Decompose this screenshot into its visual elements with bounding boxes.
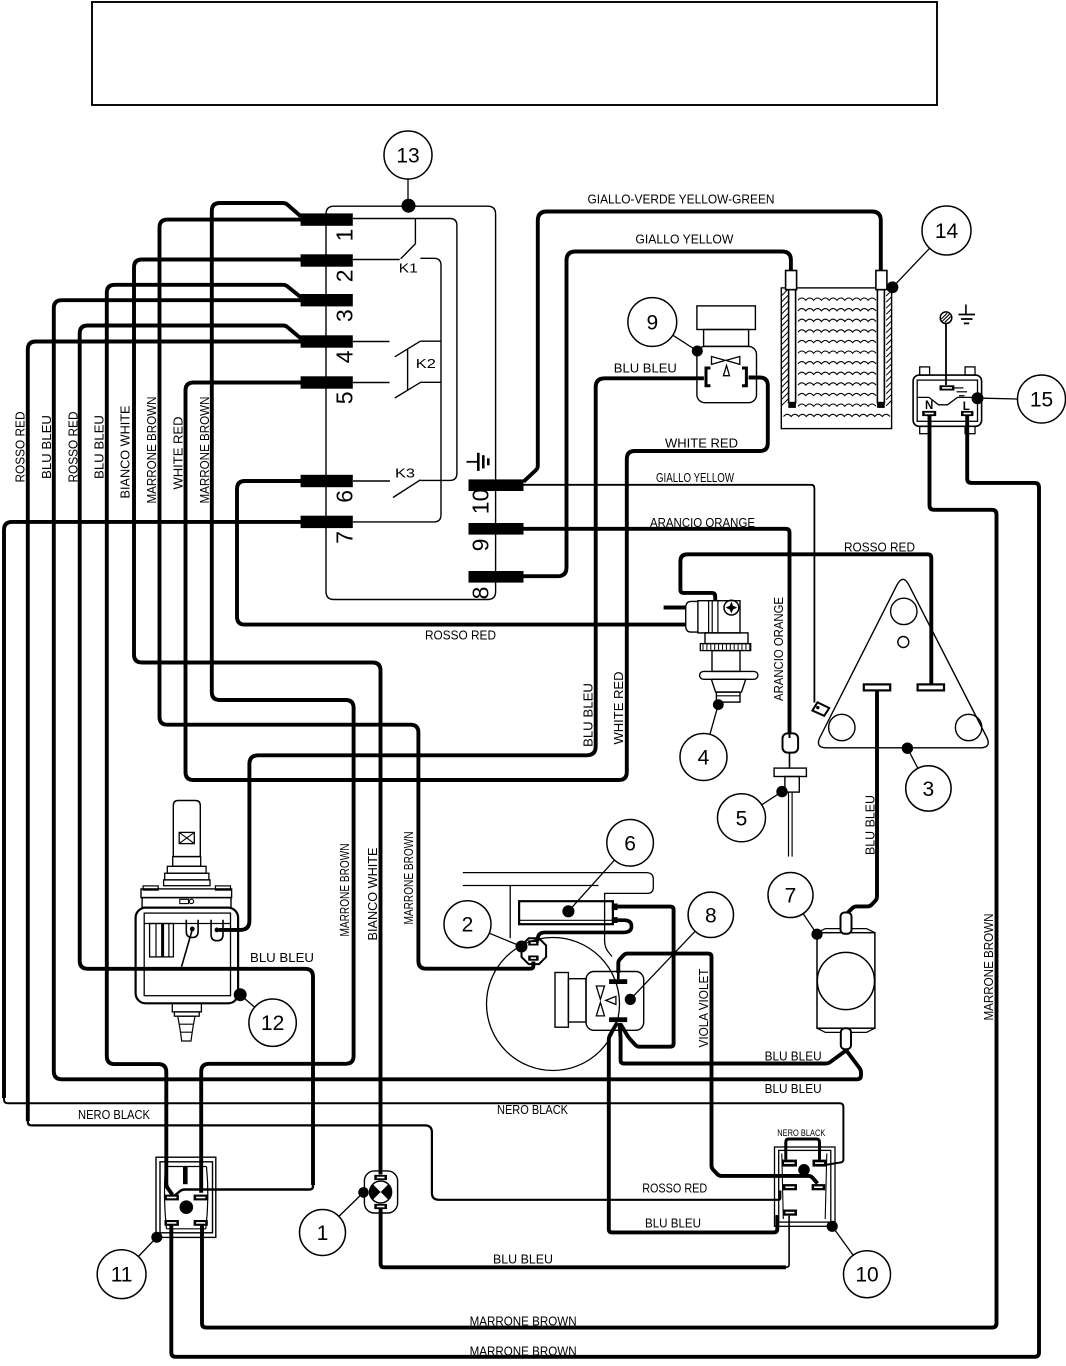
svg-text:9: 9 (646, 312, 658, 335)
svg-text:NERO BLACK: NERO BLACK (497, 1103, 569, 1117)
svg-text:ROSSO RED: ROSSO RED (642, 1182, 707, 1196)
balloon 11 (97, 1250, 146, 1299)
svg-text:NERO BLACK: NERO BLACK (78, 1108, 151, 1122)
thermoblock triangle (818, 579, 988, 748)
solenoid valve 9 body (697, 306, 756, 330)
connector 10 (775, 1147, 836, 1226)
svg-text:13: 13 (396, 145, 419, 168)
connector pins (782, 1160, 798, 1167)
thermoblock hole right (955, 714, 981, 740)
balloon 5 (718, 794, 766, 842)
pump coil (150, 924, 174, 957)
balloon 9 (628, 298, 677, 347)
pump pin right (211, 920, 223, 941)
wire blu terminal3 to motor (54, 300, 861, 1079)
wire blu solenoid8 to connector (609, 1023, 778, 1232)
wire terminal 5 (353, 382, 390, 384)
lamp 1 (364, 1171, 397, 1213)
valve symbol (712, 357, 740, 376)
wire arancio terminal9 to fuse (524, 529, 790, 734)
svg-text:GIALLO YELLOW: GIALLO YELLOW (656, 471, 734, 485)
svg-text:BLU BLEU: BLU BLEU (765, 1050, 822, 1064)
thermostat 2 (522, 938, 547, 964)
wire blu lamp to connector (381, 1209, 786, 1268)
balloon 10 (844, 1251, 891, 1298)
wire giallo-verde earth terminal10 to boiler (524, 212, 881, 482)
svg-text:5: 5 (736, 807, 748, 830)
inlet N pin (922, 411, 936, 416)
balloon 4 (680, 734, 727, 781)
flowmeter neck (705, 633, 748, 644)
pump flange (141, 889, 232, 898)
solenoid 9 right pin (742, 368, 746, 386)
pump top plate (142, 898, 231, 908)
K2 upper contact (420, 340, 441, 342)
svg-text:BLU BLEU: BLU BLEU (93, 415, 107, 479)
K3 blade (393, 480, 421, 498)
svg-text:ROSSO RED: ROSSO RED (844, 540, 915, 554)
inlet profile line (917, 397, 977, 404)
wire rosso terminal4 to pump (80, 326, 313, 1186)
svg-text:9: 9 (468, 539, 494, 552)
svg-text:K2: K2 (416, 357, 436, 371)
svg-text:BLU BLEU: BLU BLEU (765, 1082, 822, 1096)
terminal 5 bar (301, 376, 353, 388)
svg-text:K1: K1 (399, 262, 418, 276)
svg-text:NERO BLACK: NERO BLACK (777, 1128, 826, 1139)
svg-text:BLU BLEU: BLU BLEU (614, 361, 677, 375)
svg-text:GIALLO YELLOW: GIALLO YELLOW (635, 233, 733, 247)
terminal 6 bar (301, 475, 353, 487)
wire giallo terminal10 to thermoblock (524, 485, 815, 703)
svg-text:2: 2 (462, 914, 474, 937)
node junction on board (402, 199, 416, 213)
solenoid 9 left pin (706, 368, 710, 386)
balloon 3 (906, 766, 951, 811)
svg-text:11: 11 (111, 1264, 133, 1287)
wire terminal 4 (353, 341, 390, 343)
heater tab lower (612, 917, 618, 923)
svg-text:6: 6 (332, 490, 358, 503)
thermal fuse 5 body (783, 733, 799, 752)
wire blu terminal3 to switch (107, 285, 301, 1195)
thermoblock terminal right (918, 684, 944, 690)
switch 11 (156, 1157, 216, 1237)
motor 7 body (817, 933, 875, 1028)
svg-text:8: 8 (468, 587, 494, 600)
leader 14 (893, 248, 930, 287)
pump plunger (173, 801, 200, 857)
balloon 14 (922, 206, 971, 255)
solenoid 8 bottom pin (609, 1017, 627, 1022)
leader 9 (673, 335, 698, 351)
flowmeter screw (724, 600, 739, 615)
pump collar 2 (165, 873, 209, 880)
balloon 15 (1018, 375, 1066, 423)
leader 10 (832, 1226, 853, 1255)
terminal 9 bar (469, 523, 524, 535)
svg-text:4: 4 (332, 350, 358, 363)
wire viola solenoid8 to connector (618, 954, 817, 1184)
svg-text:3: 3 (332, 309, 358, 322)
pump pin center (186, 920, 198, 938)
svg-text:K3: K3 (395, 467, 415, 481)
balloon 12 (249, 999, 296, 1046)
svg-text:MARRONE BROWN: MARRONE BROWN (470, 1314, 577, 1328)
group flange (555, 973, 568, 1028)
svg-text:MARRONE BROWN: MARRONE BROWN (338, 844, 352, 937)
leader 13 (407, 179, 409, 199)
wire rosso to switch (174, 1182, 314, 1197)
wire giallo terminal8 to boiler (524, 252, 791, 577)
flowmeter hex (711, 679, 745, 692)
valve 8 symbol (596, 986, 616, 1016)
motor rotor circle (817, 952, 874, 1009)
earth symbol (965, 305, 967, 315)
flowmeter flange (700, 671, 758, 679)
svg-text:10: 10 (855, 1264, 878, 1287)
svg-text:12: 12 (261, 1012, 284, 1035)
boiler water waves (784, 298, 890, 417)
switch I mark (183, 1166, 188, 1184)
svg-text:BLU BLEU: BLU BLEU (40, 415, 54, 479)
leader 3 (907, 748, 918, 768)
wire blu thermoblock to motor (846, 690, 877, 914)
wire pump pin tap (182, 930, 193, 967)
svg-text:WHITE RED: WHITE RED (612, 672, 626, 745)
wire rosso terminal4 down (28, 342, 301, 1122)
inlet L pin (961, 411, 973, 416)
svg-text:BLU BLEU: BLU BLEU (493, 1253, 553, 1267)
boiler electrode right (877, 290, 884, 403)
group circle (487, 938, 620, 1071)
leader 4 (710, 705, 718, 735)
fuse probe rod (788, 792, 790, 857)
balloon 6 (607, 820, 654, 867)
terminal 8 bar (469, 571, 524, 583)
wire bianco-white terminal2 to lamp (134, 260, 381, 1175)
switch pins (165, 1195, 179, 1201)
title box (92, 2, 937, 105)
svg-text:WHITE RED: WHITE RED (172, 417, 186, 490)
connector nero jumper (786, 1139, 820, 1160)
motor terminal bottom (841, 1028, 851, 1049)
wire blu connector pin down (783, 1216, 789, 1268)
svg-text:ROSSO RED: ROSSO RED (14, 412, 28, 483)
leader 5 (762, 792, 782, 805)
svg-text:N: N (925, 400, 933, 412)
wire rosso flowmeter to thermoblock (680, 554, 931, 684)
group bracket outline (463, 873, 654, 957)
terminal 10 bar (469, 479, 524, 491)
balloon 2 (444, 901, 491, 948)
switch center dot (180, 1200, 194, 1214)
fuse holder (785, 777, 799, 793)
svg-text:7: 7 (785, 885, 797, 908)
inlet earth pin (940, 385, 955, 390)
balloon 7 (768, 873, 813, 918)
svg-text:2: 2 (332, 270, 358, 283)
wire marrone inlet L to switch (171, 416, 1039, 1357)
solenoid valve 8 (586, 972, 644, 1031)
svg-text:1: 1 (317, 1222, 329, 1245)
wire blu solenoid to pump (219, 378, 704, 930)
K2 link (407, 350, 409, 391)
pump outlet (172, 1003, 201, 1012)
wire nero terminal7 down (4, 522, 301, 1098)
leader 12 (240, 995, 255, 1008)
leader 15 (984, 397, 1018, 400)
K1 pivot (414, 219, 416, 244)
svg-text:15: 15 (1030, 389, 1053, 412)
wire terminal1 to K3 contact (353, 219, 457, 481)
wire rosso terminal6 to flowmeter (237, 481, 686, 625)
wire white-red terminal5 to solenoid (186, 378, 768, 781)
leader 7 (803, 914, 817, 935)
wire K1 contact to terminal 7 (353, 258, 441, 522)
flowmeter stub upper (664, 606, 686, 610)
svg-text:14: 14 (935, 220, 959, 243)
flowmeter ribbed band (700, 644, 750, 651)
terminal 1 bar (301, 213, 353, 225)
control board outline (326, 206, 496, 599)
flowmeter lower body (712, 651, 740, 672)
wire terminal 6 right (353, 480, 390, 482)
pump stem (173, 857, 201, 867)
svg-text:ARANCIO ORANGE: ARANCIO ORANGE (650, 516, 755, 530)
pump collar 3 (164, 880, 210, 886)
wire blu solenoid8 to motor (620, 1023, 847, 1064)
svg-text:3: 3 (923, 778, 935, 801)
svg-text:ROSSO RED: ROSSO RED (67, 412, 81, 483)
svg-text:GIALLO-VERDE YELLOW-GREEN: GIALLO-VERDE YELLOW-GREEN (588, 192, 775, 206)
leader 6 (568, 860, 614, 911)
svg-text:MARRONE BROWN: MARRONE BROWN (198, 397, 212, 504)
thermoblock hole top (891, 598, 917, 624)
svg-text:4: 4 (698, 747, 710, 770)
terminal 2 bar (301, 254, 353, 266)
K2 blade lower (395, 382, 421, 398)
wire marrone-brown terminal1 to switch (201, 203, 353, 1193)
svg-text:MARRONE BROWN: MARRONE BROWN (982, 914, 996, 1021)
wire earth screw to inlet (945, 324, 947, 386)
svg-text:10: 10 (468, 489, 494, 515)
svg-text:1: 1 (332, 229, 358, 242)
leader 11 (138, 1237, 156, 1256)
fuse plate (774, 768, 806, 776)
svg-text:5: 5 (332, 392, 358, 405)
motor terminal top (841, 913, 852, 934)
svg-text:8: 8 (705, 904, 717, 927)
terminal 4 bar (301, 335, 353, 347)
wire terminal 2 (353, 259, 400, 261)
svg-text:WHITE RED: WHITE RED (665, 436, 738, 450)
K2 lower contact (421, 381, 441, 383)
boiler wall hatching (781, 289, 891, 406)
svg-text:BIANCO WHITE: BIANCO WHITE (366, 848, 380, 941)
svg-text:7: 7 (332, 531, 358, 544)
svg-text:ROSSO RED: ROSSO RED (425, 629, 496, 643)
boiler vessel (781, 288, 891, 429)
svg-text:VIOLA VIOLET: VIOLA VIOLET (697, 968, 711, 1047)
leader 1 (339, 1192, 364, 1216)
balloon 1 (300, 1210, 346, 1256)
svg-text:BLU BLEU: BLU BLEU (582, 683, 596, 747)
svg-text:MARRONE BROWN: MARRONE BROWN (145, 397, 159, 504)
svg-text:MARRONE BROWN: MARRONE BROWN (402, 832, 416, 925)
flowmeter tip (716, 692, 740, 702)
terminal 7 bar (301, 516, 353, 528)
terminal 3 bar (301, 294, 353, 306)
svg-text:BLU BLEU: BLU BLEU (645, 1217, 701, 1231)
heater 6 (519, 901, 613, 924)
ground at terminal 10 (467, 461, 479, 463)
balloon 8 (688, 892, 733, 937)
leader 8 (630, 931, 695, 999)
svg-text:BIANCO WHITE: BIANCO WHITE (119, 406, 133, 499)
wire nero-black to connector (4, 1095, 843, 1165)
chassis earth screw (940, 312, 952, 324)
svg-text:BLU BLEU: BLU BLEU (250, 951, 314, 965)
thermoblock earth lug (812, 702, 829, 716)
svg-text:6: 6 (624, 832, 636, 855)
boiler electrode left (789, 290, 796, 403)
K1 blade (401, 244, 416, 259)
wire marrone-brown terminal1 to thermostat (160, 220, 534, 969)
pump collar 1 (167, 866, 206, 873)
heater tab upper (612, 904, 618, 911)
solenoid 8 top pin (609, 979, 627, 984)
thermoblock terminal left (864, 684, 890, 690)
flowmeter shell (686, 601, 699, 632)
inlet socket 15 (920, 367, 930, 375)
svg-text:ARANCIO ORANGE: ARANCIO ORANGE (772, 597, 786, 701)
wire heater to thermostat (538, 920, 632, 941)
svg-text:MARRONE BROWN: MARRONE BROWN (470, 1344, 577, 1358)
wire marrone inlet N to switch (202, 416, 997, 1328)
balloon 13 (384, 131, 432, 179)
wire heater to solenoid8 pin (618, 907, 674, 1047)
wire nero-black rosso-red to connector (28, 1117, 781, 1200)
thermoblock hole small (898, 637, 909, 648)
connector lamp (798, 1164, 810, 1176)
pump body (136, 908, 239, 1004)
thermoblock hole left (829, 714, 855, 740)
K2 blade upper (395, 341, 421, 357)
leader 2 (489, 933, 521, 946)
